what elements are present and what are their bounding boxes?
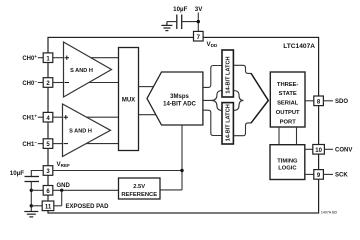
svg-text:10: 10: [315, 148, 322, 154]
wire A1 out+ to MUX: [91, 57, 119, 59]
svg-text:REFERENCE: REFERENCE: [121, 192, 157, 198]
pin 8 SDO: [314, 96, 324, 106]
svg-text:S AND H: S AND H: [70, 68, 93, 74]
wire latch bus merge (right brace): [234, 91, 244, 111]
block U6 THREE-STATE SERIAL OUTPUT PORT: [270, 72, 305, 127]
pin 11 EXPOSED PAD: [42, 201, 54, 211]
MUX U2: [119, 48, 139, 151]
svg-text:THREE-: THREE-: [277, 82, 299, 88]
wire pin 10 to CONV label: [324, 148, 333, 150]
wire CH1+ to pin 4: [38, 116, 43, 118]
wire pin 11 to GND node: [54, 205, 62, 207]
wire pin 4 to S and H 2 + input: [53, 116, 63, 118]
IC boundary box LTC1407A: [48, 37, 319, 213]
svg-text:3V: 3V: [195, 6, 203, 13]
wire ADC to latch 2 (lower edge): [203, 110, 222, 135]
wire GND node down to exposed pad wire: [61, 190, 63, 206]
wire pin 8 to SDO label: [323, 100, 333, 102]
node 3V junction: [197, 20, 200, 23]
ADC U3 3Msps 14-BIT: [147, 72, 203, 125]
latch U5 14-BIT LATCH (lower): [222, 103, 233, 144]
wire ADC to latch 1 (upper edge): [203, 66, 222, 88]
wire CH1- to pin 5: [38, 143, 43, 145]
pin 1: [43, 53, 53, 63]
wire CH0+ to pin 1: [38, 57, 43, 59]
wire 3V to pin 7: [197, 13, 199, 32]
svg-text:TIMING: TIMING: [277, 158, 298, 164]
op-amp A2 S AND H (channel 1): [63, 104, 111, 157]
wire pin 1 to S and H + input: [53, 57, 64, 59]
pin 6 GND: [43, 186, 53, 196]
svg-text:S AND H: S AND H: [69, 129, 92, 135]
svg-text:11: 11: [45, 204, 52, 210]
pin 2: [43, 78, 53, 88]
pin 5: [43, 139, 53, 149]
wire serial port to timing logic (left): [278, 127, 280, 145]
wire serial port to pin 8: [305, 100, 314, 102]
svg-text:EXPOSED PAD: EXPOSED PAD: [66, 204, 110, 210]
svg-text:LOGIC: LOGIC: [278, 165, 297, 171]
wire VREF rail pin 3 to ADC: [53, 170, 182, 172]
latch U4 14-BIT LATCH (upper): [222, 50, 233, 97]
wire ground rail to pin 6: [31, 189, 43, 191]
wire ground to C1: [167, 21, 177, 23]
wire A2 out+ to MUX: [87, 116, 119, 118]
wire latch 1 to output arrow (upper edge): [234, 65, 252, 73]
wire pin 2 to S and H - input: [53, 82, 64, 84]
wire timing logic to pin 9: [305, 173, 314, 175]
ground (bottom left): [24, 212, 38, 217]
wire timing logic to pin 10: [305, 148, 313, 150]
capacitor C1 10uF (top): [177, 15, 182, 30]
pin 3 VREF: [43, 166, 53, 176]
svg-text:MUX: MUX: [122, 97, 135, 103]
block U8 2.5V REFERENCE: [119, 178, 161, 199]
wire ADC bus fork (left brace): [203, 91, 222, 111]
pin 4: [43, 112, 53, 122]
svg-text:14-BIT ADC: 14-BIT ADC: [163, 102, 196, 108]
node C2/EXPOSED PAD junction: [30, 204, 33, 207]
svg-text:10µF: 10µF: [10, 170, 24, 177]
node VREF junction: [180, 169, 183, 172]
svg-text:VDD: VDD: [207, 41, 218, 48]
svg-text:LTC1407A: LTC1407A: [283, 43, 315, 50]
wire pin 3 to cap (left): [31, 171, 43, 177]
svg-text:10µF: 10µF: [173, 6, 187, 13]
svg-text:SCK: SCK: [335, 173, 348, 179]
svg-text:PORT: PORT: [280, 119, 297, 125]
wire A1 out- to MUX: [89, 82, 119, 84]
block U7 TIMING LOGIC: [270, 145, 305, 180]
svg-text:SERIAL: SERIAL: [277, 101, 299, 107]
wire C2 to ground: [30, 182, 32, 212]
op-amp A1 S AND H (channel 0): [64, 42, 112, 97]
wire A2 out- to MUX: [86, 143, 119, 145]
svg-text:2.5V: 2.5V: [133, 184, 145, 190]
wire serial port to timing logic (right): [296, 127, 298, 145]
pin 10 CONV: [313, 145, 325, 155]
svg-text:OUTPUT: OUTPUT: [276, 110, 300, 116]
ground (top left): [161, 22, 172, 31]
wire MUX to ADC -: [139, 114, 156, 116]
svg-text:1407A BD: 1407A BD: [321, 211, 338, 215]
wire C1 to 3V node: [182, 21, 199, 23]
wire pin 5 to S and H 2 - input: [53, 143, 63, 145]
wire pin 9 to SCK label: [323, 173, 333, 175]
svg-text:VREF: VREF: [57, 161, 71, 168]
wire VREF to reference block: [160, 189, 182, 191]
capacitor C2 10uF (bottom): [25, 177, 40, 182]
svg-text:3Msps: 3Msps: [170, 94, 189, 100]
wire CH0- to pin 2: [38, 82, 43, 84]
wire latch 2 to output arrow (lower edge): [234, 123, 252, 136]
svg-text:CONV: CONV: [335, 148, 352, 154]
node C2/GND junction: [30, 189, 33, 192]
wire ground rail to pin 11: [31, 205, 42, 207]
node GND junction: [60, 189, 63, 192]
svg-text:14-BIT LATCH: 14-BIT LATCH: [226, 56, 232, 93]
svg-text:GND: GND: [57, 183, 71, 189]
svg-text:SDO: SDO: [335, 99, 348, 105]
wire pin 6 to reference block: [53, 189, 119, 191]
svg-text:STATE: STATE: [279, 91, 297, 97]
pin 7 VDD: [194, 31, 204, 41]
wire output bus arrowhead: [251, 73, 268, 123]
wire MUX to ADC +: [139, 86, 154, 88]
wire ADC bottom to VREF node: [181, 125, 183, 190]
pin 9 SCK: [314, 170, 324, 180]
svg-text:14-BIT LATCH: 14-BIT LATCH: [226, 104, 232, 141]
